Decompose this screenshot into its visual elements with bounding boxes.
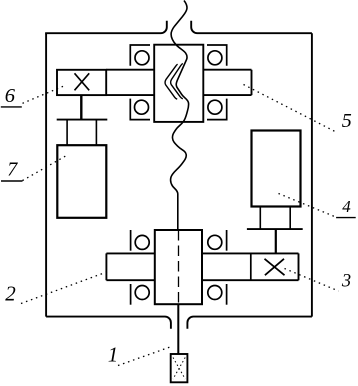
bearing thrust tick top-right (bottom cross)	[226, 230, 228, 251]
coupling columns (right)	[260, 207, 290, 230]
clutch box 6	[57, 70, 106, 95]
leader line to label 1	[118, 347, 172, 366]
shaft from clutch 6 to coupling plate	[80, 95, 82, 120]
wavy break stroke (left chevron)	[165, 64, 178, 99]
bearing square top-right (top cross)	[207, 45, 227, 66]
bearing ball circle bottom-right (top cross)	[208, 100, 222, 114]
coupling plate (right)	[247, 228, 303, 230]
top cross horizontal bar (shaft)	[106, 70, 251, 95]
svg-text:3: 3	[341, 272, 351, 292]
bearing square bottom-right (top cross)	[207, 99, 227, 120]
svg-text:5: 5	[342, 110, 352, 132]
motor 7	[57, 145, 106, 218]
dotted X inside tool chuck	[173, 358, 185, 380]
housing right wall	[311, 33, 313, 316]
bearing ball circle bottom-left (top cross)	[135, 100, 149, 114]
underline for label 6	[1, 106, 22, 108]
clutch box 3 divider	[250, 253, 252, 280]
coupling plate (left)	[57, 119, 108, 121]
clutch X mark in box 3	[265, 259, 285, 275]
leader line to label 6	[23, 86, 66, 104]
tool chuck rectangle 1	[171, 354, 188, 382]
housing top wall left segment with lip	[46, 21, 167, 35]
leader line to label 3	[285, 269, 339, 292]
leader line to label 5	[244, 85, 337, 133]
bottom cross gear block	[155, 230, 202, 304]
leader line to label 2	[21, 272, 108, 304]
coupling columns (left)	[67, 120, 96, 146]
housing top wall right segment with lip	[191, 21, 312, 34]
bearing ball circle top-right (top cross)	[208, 51, 222, 65]
bearing thrust tick top-left (bottom cross)	[130, 230, 132, 251]
underline for label 4	[336, 217, 356, 219]
bearing circle bottom-right (bottom cross)	[208, 286, 222, 300]
bearing square bottom-left (top cross)	[130, 99, 150, 120]
bearing thrust tick bottom-left (bottom cross)	[130, 284, 132, 305]
bearing square top-left (top cross)	[130, 45, 150, 66]
svg-text:4: 4	[342, 197, 351, 216]
svg-text:1: 1	[108, 342, 119, 366]
bearing circle top-left (bottom cross)	[135, 235, 149, 249]
housing left wall	[45, 33, 47, 316]
svg-text:2: 2	[5, 282, 16, 306]
svg-text:6: 6	[5, 85, 16, 107]
spindle shaft below bottom cross	[177, 304, 179, 354]
flexible wavy shaft	[171, 1, 189, 231]
bearing circle top-right (bottom cross)	[208, 235, 222, 249]
clutch X mark in box 6	[75, 73, 90, 90]
bearing ball circle top-left (top cross)	[135, 51, 149, 65]
shaft from coupling to clutch 3	[275, 229, 277, 253]
bottom cross horizontal bar (shaft to clutch 3)	[106, 253, 298, 280]
top cross gear block	[154, 45, 203, 122]
housing bottom wall left segment with lip	[46, 317, 171, 329]
svg-text:7: 7	[7, 159, 18, 181]
housing bottom wall right segment with lip	[187, 317, 312, 329]
leader line to label 4	[279, 194, 335, 217]
motor 4	[252, 131, 301, 207]
underline for label 7	[1, 180, 23, 182]
wavy break stroke (middle chevron)	[171, 63, 183, 98]
leader line to label 7	[23, 156, 67, 181]
dashed centerline through bottom cross	[178, 230, 180, 304]
bearing thrust tick bottom-right (bottom cross)	[226, 284, 228, 305]
bearing circle bottom-left (bottom cross)	[135, 286, 149, 300]
